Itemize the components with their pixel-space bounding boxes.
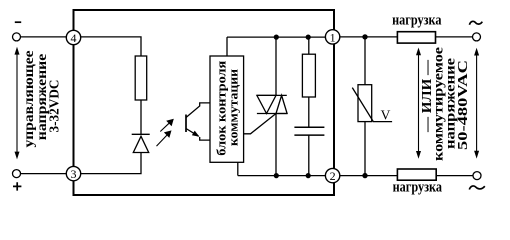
LED light arrow upper	[160, 119, 174, 132]
triac gate wire	[244, 114, 276, 134]
wire	[308, 97, 310, 127]
plus label	[13, 182, 21, 190]
pin circle 4	[66, 30, 80, 44]
triac TR1	[257, 94, 287, 96]
minus label	[15, 21, 21, 23]
control-voltage double arrow	[15, 47, 20, 160]
wire plus to pin3	[20, 173, 66, 175]
junction varistor bottom	[362, 173, 367, 178]
terminal DC minus	[13, 33, 21, 41]
svg-text:4: 4	[71, 31, 77, 45]
svg-text:2: 2	[330, 169, 336, 183]
AC tilde top	[469, 21, 482, 24]
resistor R2	[302, 54, 315, 97]
bottom bus wire	[238, 175, 326, 177]
snubber branch	[308, 37, 310, 54]
SSR enclosure box	[74, 10, 335, 195]
junction bottom snubber	[306, 173, 311, 178]
LED D1	[132, 133, 150, 135]
pin circle 2	[325, 168, 339, 182]
varistor RU	[358, 85, 372, 122]
phototransistor Q1 collector	[186, 103, 210, 118]
block stub to top bus	[226, 37, 228, 56]
pin circle 3	[66, 166, 80, 180]
control block U1	[210, 56, 244, 162]
svg-text:нагрузка: нагрузка	[393, 179, 443, 195]
svg-text:V: V	[381, 108, 391, 123]
AC voltage double arrow right	[474, 48, 479, 159]
phototransistor Q1 emitter	[186, 129, 210, 141]
svg-text:3: 3	[71, 167, 77, 181]
OR double arrow middle	[416, 48, 421, 159]
load resistor top	[397, 32, 435, 43]
svg-text:3-32VDC: 3-32VDC	[47, 80, 62, 133]
wire LED to pin3	[81, 153, 141, 174]
block stub to bottom bus	[237, 163, 239, 176]
wire pin4 to resistor branch	[81, 37, 141, 56]
terminal AC top	[473, 33, 481, 41]
svg-text:коммутации: коммутации	[227, 69, 241, 146]
junction varistor top	[362, 34, 367, 39]
AC tilde bottom	[469, 186, 485, 190]
AC top wire	[340, 36, 473, 38]
svg-text:1: 1	[330, 30, 336, 44]
wire	[308, 135, 310, 176]
junction top snubber	[306, 35, 311, 40]
junction bottom triac	[274, 173, 279, 178]
AC bottom wire	[340, 175, 474, 177]
wire	[140, 100, 142, 134]
junction top triac	[274, 35, 279, 40]
phototransistor Q1 base bar	[185, 115, 187, 133]
wire minus to pin4	[20, 36, 66, 38]
svg-text:50-480VAC: 50-480VAC	[456, 60, 471, 150]
pin circle 1	[325, 30, 339, 44]
resistor R1	[135, 56, 147, 100]
top bus wire	[227, 36, 325, 38]
triac branch vertical	[275, 37, 277, 176]
varistor branch	[364, 37, 366, 176]
LED light arrow lower	[157, 130, 172, 146]
svg-text:нагрузка: нагрузка	[392, 12, 442, 28]
terminal AC bottom	[473, 172, 481, 180]
terminal DC plus	[13, 170, 21, 178]
capacitor C1	[294, 127, 324, 135]
load resistor bottom	[397, 169, 436, 180]
